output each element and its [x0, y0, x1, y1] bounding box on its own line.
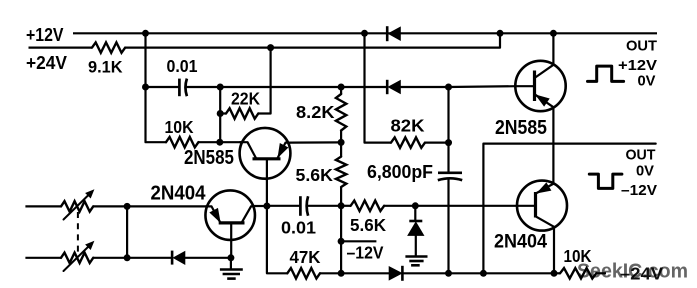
wire bottom rail 47K to vertical D [320, 272, 341, 274]
capacitor C1 0.01 right plate [185, 79, 186, 97]
wire vertical D coupling line to -12V node [340, 206, 342, 242]
wire Q3 base to node [230, 241, 232, 258]
svg-text:+12V: +12V [26, 25, 64, 45]
svg-text:6,800pF: 6,800pF [367, 162, 433, 182]
wire vertical B x=364.5 from top rail to 82K line [365, 33, 392, 142]
svg-text:–12V: –12V [347, 243, 384, 263]
resistor R6 82K [391, 137, 425, 147]
wire vertical A x=145.5 down to 10K corner [146, 33, 167, 142]
resistor R9 10K [560, 268, 596, 278]
diode D4 cathode bar [401, 266, 404, 281]
wire vertical D between 8.2K and 5.6K [340, 131, 342, 157]
wire C2 to vertical D [308, 205, 342, 207]
junction dot -12V node [338, 238, 345, 245]
transistor Q3 2N404 [205, 190, 255, 240]
resistor R7 5.6K (horizontal) [351, 201, 385, 211]
wire D3 to Q3 base node [185, 257, 231, 259]
junction dot Q4 collector / bottom rail [551, 270, 558, 277]
junction dot bottom rail / vertical E [445, 270, 452, 277]
svg-text:9.1K: 9.1K [88, 59, 123, 77]
svg-text:82K: 82K [391, 116, 425, 136]
junction dot +24V joins top rail [497, 30, 504, 37]
wire +12V rail (top, y=33) [73, 32, 657, 34]
capacitor C2 0.01 right plate [307, 196, 308, 216]
wire vertical E from C3 to bottom rail [447, 179, 449, 273]
resistor R2 10K [166, 137, 198, 147]
ground G2 [405, 255, 427, 258]
junction dot Q2 collector / top rail [550, 30, 557, 37]
wire 22K stub [220, 112, 226, 114]
diode D2 triangle (points left) [389, 81, 401, 94]
wire 22K right end up to +24V rail [258, 48, 270, 114]
svg-text:–12V: –12V [621, 182, 657, 199]
variable resistor VR2 [61, 253, 93, 263]
resistor R1 9.1K [92, 42, 125, 52]
junction dot vertical A / mid line [142, 84, 149, 91]
svg-text:0.01: 0.01 [167, 56, 198, 76]
wire bottom rail vertical E to OUT2 vertical [449, 272, 484, 274]
wire Q1 right lead to vertical D [290, 141, 341, 143]
svg-text:0.01: 0.01 [281, 217, 316, 237]
wire vertical D 5.6K to coupling line [340, 187, 342, 206]
svg-text:22K: 22K [231, 88, 260, 108]
wire bottom rail 10K to -24V terminal [596, 272, 606, 274]
junction dot vertical E / 82K line [445, 139, 452, 146]
junction dot 22K / +24V rail [267, 44, 274, 51]
diode D1 triangle (points left) [389, 27, 401, 40]
dashed gang line between VR1 and VR2 [77, 212, 79, 253]
diode D5 cathode bar [409, 220, 422, 223]
junction dot node B (x=220.2,y=87) [217, 84, 224, 91]
wire -12V terminal stub [341, 240, 376, 242]
diode D4 triangle (points right) [389, 267, 402, 280]
variable resistor VR1 [61, 201, 93, 211]
wire 10K to Q1 base-left lead [198, 141, 242, 143]
wire OUT2 corner: vertical x=483.4 and horizontal y=143.6 [483, 144, 655, 274]
wire vertical E from mid line to C3 top plate [447, 87, 449, 173]
junction dot input line 2 / gang vertical [124, 254, 131, 261]
svg-text:OUT: OUT [626, 147, 656, 164]
wire input line 1 to Q3 [93, 205, 206, 207]
wire mid line node B to 8.2K top [220, 86, 341, 88]
svg-text:2N404: 2N404 [151, 182, 207, 205]
arrow through VR1 [64, 195, 90, 220]
junction dot vertical C / 10K line [216, 139, 223, 146]
junction dot bottom rail / vertical D [338, 270, 345, 277]
svg-text:2N404: 2N404 [494, 232, 547, 253]
wire 5.6K to diode node [384, 205, 415, 207]
capacitor C3 6800pF top plate [438, 171, 462, 174]
wire bottom rail OUT2 vertical to Q4 collector [483, 272, 554, 274]
svg-text:5.6K: 5.6K [350, 215, 386, 235]
wire bottom rail vertical D to diode D4 [341, 272, 389, 274]
transistor Q1 2N585 [240, 128, 291, 181]
svg-text:SeekIC.com: SeekIC.com [577, 260, 688, 283]
svg-text:8.2K: 8.2K [296, 102, 335, 122]
wire coupling line vertical D to 5.6K [341, 205, 351, 207]
wire +24V rail left segment [29, 46, 93, 48]
wire bottom rail D4 to vertical E [402, 272, 448, 274]
junction dot input line 1 / gang vertical [124, 203, 131, 210]
svg-text:0V: 0V [638, 73, 656, 90]
arrow through VR2 [64, 246, 90, 271]
wire input line 2 left segment [25, 257, 61, 259]
diode D5 triangle (points up) [408, 222, 424, 235]
resistor R3 22K [226, 108, 258, 118]
wire D5 node down to cathode bar [414, 206, 416, 221]
wire mid line D2 to 82K-top node [400, 86, 448, 88]
wire mid line C1 to node B [186, 86, 220, 88]
capacitor C2 0.01 left plate [299, 196, 302, 216]
wire vertical C x=220.2 (node B down to 10K line) [219, 87, 221, 142]
junction dot vertical C / 22K line [217, 110, 224, 117]
capacitor C3 6800pF bottom plate [438, 178, 462, 180]
ground G1 below Q3 base node [230, 258, 232, 270]
transistor Q4 2N404 [517, 181, 567, 274]
diode D3 triangle (points left) [174, 252, 185, 265]
wire mid line 8.2K top to diode D2 [341, 86, 386, 88]
capacitor C1 0.01 left plate [178, 79, 181, 97]
junction dot top rail / vertical B [361, 30, 368, 37]
svg-text:47K: 47K [290, 247, 321, 267]
svg-text:5.6K: 5.6K [296, 165, 334, 185]
resistor R8 47K [287, 268, 320, 278]
wire input line 2 to diode D3 [93, 257, 171, 259]
junction dot vertical D / Q1 emitter line [338, 139, 345, 146]
junction dot 8.2K top [338, 84, 345, 91]
svg-text:0V: 0V [636, 162, 654, 179]
svg-text:10K: 10K [165, 117, 194, 137]
wire D5 anode down to ground [415, 235, 417, 256]
resistor R5 5.6K (vertical) [336, 157, 346, 187]
wire +24V rail right segment with corner up to top rail [125, 33, 500, 47]
wire mid line to Q2 base [449, 85, 516, 88]
wire vertical D top stub [340, 87, 342, 94]
wire diode node to Q4 base [415, 205, 517, 207]
resistor R4 8.2K (vertical) [336, 94, 346, 131]
wire coupling node to C2 [267, 205, 301, 207]
wire vertical D -12V node to bottom rail [340, 241, 342, 273]
diode D1 cathode bar [386, 26, 389, 41]
junction dot Q3 base node [227, 254, 234, 261]
diode D2 cathode bar [386, 80, 389, 94]
waveform positive pulse icon [588, 66, 624, 81]
wire mid line segment to C1 [146, 86, 180, 88]
svg-text:2N585: 2N585 [495, 116, 547, 139]
junction dot mid line / vertical E [445, 84, 452, 91]
junction dot vertical D / coupling line [338, 202, 345, 209]
wire bottom rail Q4 collector to 10K [554, 272, 560, 274]
svg-text:2N585: 2N585 [184, 146, 234, 169]
svg-text:+24V: +24V [26, 53, 67, 73]
junction dot Q1 base / Q3 collector [263, 203, 270, 210]
wire 82K to vertical E [425, 142, 449, 144]
junction dot top rail / vertical A [142, 30, 149, 37]
svg-text:OUT: OUT [626, 38, 657, 55]
wire input line 1 left segment [25, 205, 61, 207]
wire gang vertical x=127.1 [126, 206, 128, 257]
junction dot OUT2 vertical / bottom rail [480, 270, 487, 277]
transistor Q2 2N585 [515, 33, 565, 183]
waveform negative pulse icon [589, 174, 622, 188]
diode D3 cathode bar [171, 251, 174, 265]
wire Q3 collector to Q1 base node [255, 205, 267, 207]
wire Q1 base node down to bottom rail corner [267, 180, 287, 274]
junction dot diode D5 node [412, 202, 419, 209]
